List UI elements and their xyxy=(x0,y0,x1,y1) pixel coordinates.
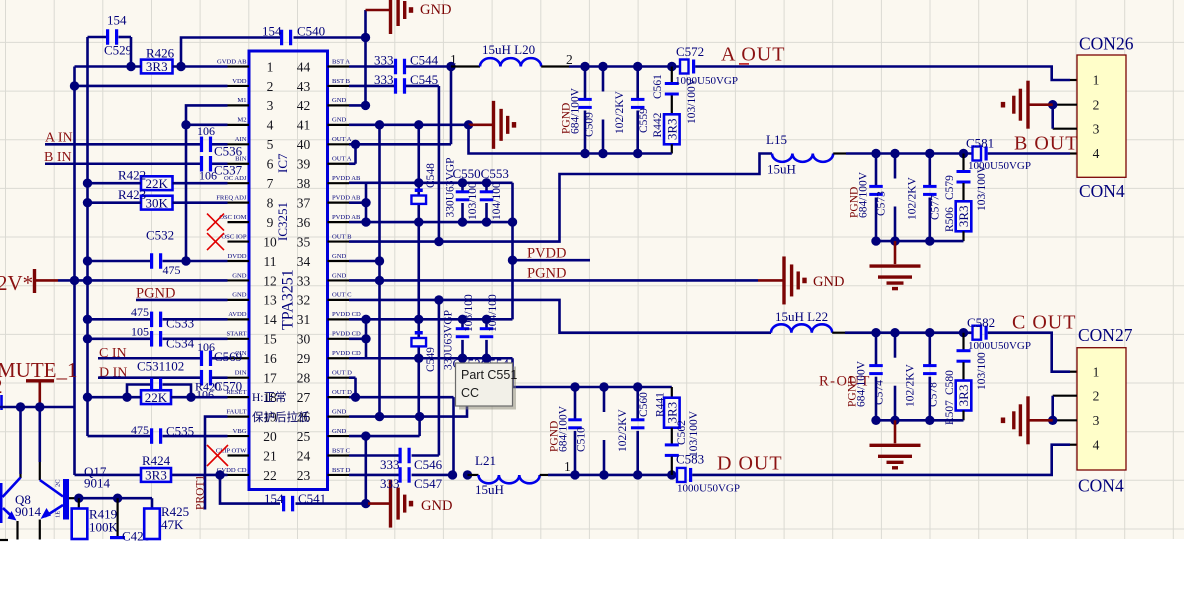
svg-text:20: 20 xyxy=(263,429,277,444)
junction Ab1 xyxy=(580,149,589,158)
svg-text:PVDD CD: PVDD CD xyxy=(332,331,361,338)
svg-text:24: 24 xyxy=(297,448,311,463)
IC7 pin 42 (GND) stub+number+name xyxy=(297,97,349,113)
svg-text:M1: M1 xyxy=(237,97,246,104)
IC7 pin 18 (RESET) stub+number+name xyxy=(226,389,277,405)
svg-text:103/100: 103/100 xyxy=(463,294,475,332)
svg-text:GND: GND xyxy=(420,2,451,18)
svg-text:104/100: 104/100 xyxy=(487,294,499,332)
svg-text:10: 10 xyxy=(263,234,277,249)
junction C1 xyxy=(871,328,880,337)
svg-text:C572: C572 xyxy=(676,44,704,59)
wire pin41 GND row xyxy=(349,124,469,127)
svg-text:14: 14 xyxy=(263,312,277,327)
junction 36c xyxy=(458,217,467,226)
svg-text:40: 40 xyxy=(297,137,311,152)
svg-text:R506: R506 xyxy=(944,207,956,232)
svg-text:PGND: PGND xyxy=(527,266,566,282)
IC7 pin 8 (FREQ ADJ) stub+number+name xyxy=(216,194,273,210)
svg-text:42: 42 xyxy=(297,98,311,113)
junction D1 xyxy=(570,470,579,479)
wire pin36 PVDD AB rail xyxy=(349,221,513,224)
junction Cb1 xyxy=(871,416,880,425)
wire pin31 PVDD CD rail xyxy=(349,318,513,321)
wire OUT A net xyxy=(349,67,451,164)
capacitor C580 + resistor R507 3R3 chain xyxy=(956,333,972,421)
svg-text:1000U50VGP: 1000U50VGP xyxy=(675,75,738,87)
junction R422/bus xyxy=(83,179,92,188)
svg-text:2: 2 xyxy=(1093,97,1100,112)
svg-text:4: 4 xyxy=(267,118,274,133)
junction Ab3 xyxy=(633,149,642,158)
svg-text:OUT D: OUT D xyxy=(332,389,352,396)
wire A OUT to CON26 pin1 xyxy=(695,67,1070,81)
capacitor C569 106 xyxy=(197,340,242,366)
power ground symbol A-filter xyxy=(469,101,517,149)
wire pin26 GND row xyxy=(349,406,467,417)
junction D-L21 b xyxy=(463,470,472,479)
svg-text:12: 12 xyxy=(263,273,277,288)
capacitor hidden branch A xyxy=(602,67,605,154)
junction C531 right xyxy=(186,392,195,401)
IC7 pin 9 (OSC IOM) stub+number+name xyxy=(219,214,273,230)
svg-text:9: 9 xyxy=(267,215,274,230)
wire pin42 GND xyxy=(349,104,366,107)
wire GND bus x379.5 xyxy=(378,125,381,417)
svg-text:R424: R424 xyxy=(142,453,171,468)
svg-text:103/100: 103/100 xyxy=(976,352,988,390)
junction R426 left xyxy=(126,62,135,71)
IC7 pin 5 (AIN) stub+number+name xyxy=(228,136,274,152)
edge tick bottom left xyxy=(0,539,8,541)
svg-text:1: 1 xyxy=(564,459,571,474)
connector CON27 body xyxy=(1077,325,1133,495)
junction Cb2 xyxy=(890,416,899,425)
capacitor C583 1000U50VGP xyxy=(676,452,740,495)
svg-text:GND: GND xyxy=(332,428,347,435)
wire pin12 row from +12V xyxy=(58,279,228,282)
capacitor C547 333 BST D xyxy=(349,467,453,491)
wire A IN row xyxy=(45,143,228,146)
svg-text:28: 28 xyxy=(297,371,311,386)
capacitor C572 1000U50VGP xyxy=(675,44,738,87)
svg-text:3: 3 xyxy=(1093,121,1100,136)
svg-text:C532: C532 xyxy=(146,228,174,243)
IC7 pin 12 (GND) stub+number+name xyxy=(228,272,277,288)
svg-text:C546: C546 xyxy=(414,457,443,472)
junction 12V/bus87 xyxy=(83,276,92,285)
resistor R424 3R3 xyxy=(141,453,171,483)
wire B IN row xyxy=(45,162,228,165)
junction 41a xyxy=(375,120,384,129)
resistor R422 22K xyxy=(118,168,173,191)
svg-text:C OUT: C OUT xyxy=(1012,312,1076,334)
junction Bb1 xyxy=(871,236,880,245)
capacitor C570 106 xyxy=(195,370,242,402)
svg-text:C509: C509 xyxy=(584,112,596,137)
capacitor C510 684/100V xyxy=(568,387,582,475)
svg-text:C545: C545 xyxy=(410,72,438,87)
svg-text:R423: R423 xyxy=(118,187,146,202)
svg-text:15uH L20: 15uH L20 xyxy=(482,42,535,57)
junction 33 xyxy=(375,276,384,285)
earth ground C filter xyxy=(894,420,897,443)
wire PVDD AB tie xyxy=(349,183,513,222)
power ground symbol big right xyxy=(758,256,807,304)
svg-text:15uH: 15uH xyxy=(767,162,796,177)
junction Bb2 xyxy=(890,236,899,245)
junction C3 xyxy=(925,328,934,337)
capacitor C578 102/2KV xyxy=(923,333,937,421)
junction pin42 gnd bus xyxy=(361,101,370,110)
wire C rail xyxy=(876,331,973,334)
capacitor hidden branch C xyxy=(894,333,897,421)
svg-text:22K: 22K xyxy=(145,390,168,405)
svg-text:GND: GND xyxy=(232,292,247,299)
svg-text:R422: R422 xyxy=(118,168,146,183)
svg-text:C574: C574 xyxy=(874,380,886,405)
capacitor C577 102/2KV xyxy=(923,154,937,242)
svg-text:PVDD AB: PVDD AB xyxy=(332,214,361,221)
junction A3 xyxy=(633,62,642,71)
capacitor C535 475 xyxy=(131,423,194,444)
junction C532 left xyxy=(83,256,92,265)
svg-text:15uH L22: 15uH L22 xyxy=(775,309,828,324)
junction 31c xyxy=(458,315,467,324)
wire rail D2 corner xyxy=(511,358,514,387)
junction D3 xyxy=(633,470,642,479)
capacitor C533 475 xyxy=(131,305,194,331)
svg-text:32: 32 xyxy=(297,293,311,308)
capacitor C548 330U63VGP xyxy=(411,163,437,204)
svg-text:PROT1: PROT1 xyxy=(195,475,207,510)
transistor Q8 9014 xyxy=(0,407,42,540)
svg-text:BST C: BST C xyxy=(332,447,351,454)
junction 26a xyxy=(375,412,384,421)
svg-text:3R3: 3R3 xyxy=(146,59,168,74)
junction MUTE/Q17 xyxy=(35,402,44,411)
svg-text:OUT B: OUT B xyxy=(332,233,352,240)
power ground symbol CON26 xyxy=(1001,81,1053,129)
wire pin25 GND row xyxy=(349,417,420,436)
IC7 pin 44 (BST A) stub+number+name xyxy=(297,58,351,74)
junction C533/bus xyxy=(83,315,92,324)
svg-text:OUT D: OUT D xyxy=(332,370,352,377)
capacitor C549 330U63VGP lower xyxy=(411,331,437,372)
IC7 pin 3 (M1) stub+number+name xyxy=(228,97,274,113)
IC7 pin 26 (GND) stub+number+name xyxy=(297,408,349,424)
svg-text:BST D: BST D xyxy=(332,467,351,474)
junction Dt3 xyxy=(633,382,642,391)
svg-text:C570: C570 xyxy=(214,379,242,394)
svg-text:GVDD AB: GVDD AB xyxy=(217,58,247,65)
svg-text:CON26: CON26 xyxy=(1079,34,1134,54)
svg-text:31: 31 xyxy=(297,312,311,327)
wire B OUT to CON26 pin4 xyxy=(988,152,1077,155)
IC7 pin 25 (GND) stub+number+name xyxy=(297,428,349,444)
capacitor C541 154 xyxy=(264,491,326,511)
svg-text:25: 25 xyxy=(297,429,311,444)
svg-text:R442: R442 xyxy=(652,112,664,137)
svg-text:106: 106 xyxy=(197,340,215,354)
capacitor C545 333 BST B xyxy=(349,72,439,94)
capacitor C573 684/100V xyxy=(869,154,883,242)
inductor L21 15uH xyxy=(468,453,576,497)
svg-text:2: 2 xyxy=(0,374,3,398)
wire A bottom rail xyxy=(469,125,672,154)
resistor R441 3R3 + capacitor C562 chain xyxy=(664,387,680,475)
svg-text:GND: GND xyxy=(332,253,347,260)
wire PVDD stub xyxy=(513,259,591,262)
wire GVDD CD to C541 xyxy=(220,475,280,504)
IC7 pin 23 (BST D) stub+number+name xyxy=(297,467,351,483)
IC7 pin 35 (OUT B) stub+number+name xyxy=(297,233,352,249)
svg-text:C548: C548 xyxy=(425,163,437,188)
op-amp U1 IC7 TPA3251 body xyxy=(249,51,328,490)
svg-text:333: 333 xyxy=(380,457,400,472)
junction Dt2 xyxy=(599,382,608,391)
svg-text:C573: C573 xyxy=(876,191,888,216)
wire RESET row pin18 xyxy=(88,396,228,399)
IC7 pin 20 (VBG) stub+number+name xyxy=(228,428,278,444)
capacitor C560 102/2KV xyxy=(631,387,645,475)
IC7 pin 34 (GND) stub+number+name xyxy=(297,253,349,269)
junction 34 xyxy=(375,256,384,265)
svg-text:CON4: CON4 xyxy=(1078,476,1124,496)
svg-text:C533: C533 xyxy=(166,316,194,331)
svg-text:8: 8 xyxy=(267,195,274,210)
svg-text:44: 44 xyxy=(297,59,311,74)
svg-text:C562: C562 xyxy=(676,420,688,445)
svg-text:L21: L21 xyxy=(475,453,496,468)
IC7 pin 29 (PVDD CD) stub+number+name xyxy=(297,350,361,366)
svg-text:21: 21 xyxy=(263,448,277,463)
svg-text:35: 35 xyxy=(297,234,311,249)
svg-text:Part C551: Part C551 xyxy=(461,368,517,382)
svg-text:C559: C559 xyxy=(638,108,650,133)
svg-text:36: 36 xyxy=(297,215,311,230)
IC7 pin 4 (M2) stub+number+name xyxy=(228,117,274,133)
wire MUTE row xyxy=(0,406,75,409)
svg-text:OSC IOP: OSC IOP xyxy=(221,233,246,240)
earth ground B filter xyxy=(894,241,897,264)
junction Bb3 xyxy=(925,236,934,245)
IC7 pin 17 (DIN) stub+number+name xyxy=(228,370,278,386)
svg-text:2: 2 xyxy=(267,79,274,94)
svg-text:C561: C561 xyxy=(652,74,664,99)
junction 29c xyxy=(482,354,491,363)
resistor R423 30K xyxy=(118,187,173,210)
svg-text:6: 6 xyxy=(267,157,274,172)
wire C532 row pin11 DVDD xyxy=(88,260,228,263)
capacitor C509 684/100V xyxy=(578,67,592,154)
power port +12V xyxy=(0,269,58,295)
svg-text:C560: C560 xyxy=(638,392,650,417)
svg-text:333: 333 xyxy=(380,476,400,491)
inductor L22 15uH xyxy=(771,309,876,333)
IC7 pin 21 (CLIP OTW) stub+number+name xyxy=(216,447,277,463)
capacitor C531 bypass over 22K xyxy=(127,378,191,397)
svg-text:GND: GND xyxy=(332,408,347,415)
junction 29b xyxy=(458,354,467,363)
svg-text:106: 106 xyxy=(197,124,215,138)
svg-text:H:正常: H:正常 xyxy=(252,391,287,404)
junction PVDD AB 37 xyxy=(361,198,370,207)
IC7 pin 2 (VDD) stub+number+name xyxy=(228,78,274,94)
svg-text:R426: R426 xyxy=(146,46,175,61)
connector CON26 body xyxy=(1077,34,1134,202)
svg-text:C582: C582 xyxy=(967,315,995,330)
junction VDD/bus xyxy=(70,81,79,90)
wire C533 row pin14 AVDD xyxy=(88,318,228,321)
svg-text:30: 30 xyxy=(297,332,311,347)
capacitor hidden branch B xyxy=(894,154,897,242)
svg-text:1: 1 xyxy=(1093,73,1100,88)
junction C4 xyxy=(959,328,968,337)
svg-text:1E: 1E xyxy=(55,511,62,518)
IC7 pin 30 (PVDD CD) stub+number+name xyxy=(297,331,361,347)
IC7 pin 1 (GVDD AB) stub+number+name xyxy=(217,58,273,74)
wire R422 row xyxy=(88,182,228,185)
svg-text:DVDD: DVDD xyxy=(227,253,246,260)
junction B2 xyxy=(890,149,899,158)
wire R424 row pin22 GVDD CD xyxy=(75,474,228,477)
svg-text:29: 29 xyxy=(297,351,311,366)
svg-text:684/100V: 684/100V xyxy=(858,171,870,218)
no-connect X pin 21 CLIP OTW xyxy=(207,445,228,466)
wire PVDD CD tie xyxy=(349,319,513,358)
IC7 pin 16 (CIN) stub+number+name xyxy=(228,350,278,366)
svg-text:保护后拉低: 保护后拉低 xyxy=(252,410,310,424)
svg-text:M2: M2 xyxy=(237,117,246,124)
IC7 pin 33 (GND) stub+number+name xyxy=(297,272,349,288)
IC7 pin 15 (START) stub+number+name xyxy=(227,331,277,347)
junction OUT C / BST C xyxy=(434,295,443,304)
svg-text:C544: C544 xyxy=(410,53,439,68)
junction C2 xyxy=(890,328,899,337)
junction base/R419 xyxy=(74,494,83,503)
IC7 pin 39 (OUT A) stub+number+name xyxy=(297,156,352,172)
svg-text:154: 154 xyxy=(262,24,282,39)
svg-text:VDD: VDD xyxy=(232,78,247,85)
artifact red dash A OUT xyxy=(739,63,749,65)
IC7 pin 40 (OUT A) stub+number+name xyxy=(297,136,352,152)
svg-text:PVDD: PVDD xyxy=(527,246,566,262)
svg-text:GND: GND xyxy=(332,272,347,279)
CON26 pin3 stub xyxy=(1053,128,1077,130)
svg-text:1: 1 xyxy=(267,59,274,74)
wire VBG row pin20 xyxy=(88,435,228,438)
IC7 pin 10 (OSC IOP) stub+number+name xyxy=(221,233,277,249)
svg-text:IC7: IC7 xyxy=(275,153,290,173)
IC7 pin 6 (BIN) stub+number+name xyxy=(228,156,274,172)
junction 29a xyxy=(414,354,423,363)
wire OUT D net xyxy=(349,378,454,475)
junction OUT D xyxy=(351,392,360,401)
svg-text:22: 22 xyxy=(263,468,277,483)
wire C OUT to CON27 pin1 xyxy=(988,333,1070,372)
IC7 pin 36 (PVDD AB) stub+number+name xyxy=(297,214,361,230)
junction B1 xyxy=(871,149,880,158)
capacitor C546 333 BST C xyxy=(349,448,443,472)
wire GND vertical x365.5 xyxy=(364,10,367,105)
IC7 pin 32 (OUT C) stub+number+name xyxy=(297,292,352,308)
svg-text:38: 38 xyxy=(297,176,311,191)
svg-text:C581: C581 xyxy=(966,136,994,151)
svg-text:1000U50VGP: 1000U50VGP xyxy=(677,483,740,495)
svg-text:PVDD CD: PVDD CD xyxy=(332,311,361,318)
junction Dt1 xyxy=(570,382,579,391)
wire C534 row pin15 START xyxy=(88,337,228,340)
svg-text:3R3: 3R3 xyxy=(665,118,680,140)
junction C541 gnd xyxy=(361,499,370,508)
wire C529 right to R426 node xyxy=(130,37,133,67)
wire OUT B to L15 xyxy=(349,154,772,242)
capacitor C544 333 BST A xyxy=(349,53,451,75)
svg-text:C550C553: C550C553 xyxy=(453,166,509,181)
resistor R426 3R3 xyxy=(141,46,175,75)
svg-text:102/2KV: 102/2KV xyxy=(614,91,626,135)
svg-text:22K: 22K xyxy=(146,176,169,191)
svg-text:102/2KV: 102/2KV xyxy=(617,409,629,453)
junction 31d xyxy=(482,315,491,324)
wire D OUT to CON27 pin4 xyxy=(692,445,1070,475)
svg-text:1000U50VGP: 1000U50VGP xyxy=(968,160,1031,172)
svg-text:C583: C583 xyxy=(676,452,704,467)
svg-text:16: 16 xyxy=(263,351,277,366)
svg-text:C580: C580 xyxy=(944,370,956,395)
svg-text:7: 7 xyxy=(267,176,274,191)
capacitor C581 1000U50VGP xyxy=(966,136,1031,173)
svg-text:3: 3 xyxy=(267,98,274,113)
junction 41c xyxy=(464,120,473,129)
junction 41b xyxy=(414,120,423,129)
IC7 pin 22 (GVDD CD) stub+number+name xyxy=(217,467,277,483)
svg-text:330U63VGP: 330U63VGP xyxy=(445,157,457,217)
wire pin4 M2 row xyxy=(186,124,228,127)
junction railA 486 xyxy=(482,178,491,187)
svg-text:33: 33 xyxy=(297,273,311,288)
capacitor C529 xyxy=(88,13,133,58)
svg-text:17: 17 xyxy=(263,371,277,386)
svg-text:TPA3251: TPA3251 xyxy=(280,269,297,330)
IC7 pin 11 (DVDD) stub+number+name xyxy=(227,253,276,269)
IC7 pin 38 (PVDD AB) stub+number+name xyxy=(297,175,361,191)
wire BST B to OUT B xyxy=(438,86,441,242)
wire BST C to OUT C vertical xyxy=(438,300,441,456)
capacitor C554 104/100 lower xyxy=(480,319,494,358)
svg-text:D OUT: D OUT xyxy=(717,453,783,475)
svg-text:A OUT: A OUT xyxy=(721,44,785,66)
svg-text:37: 37 xyxy=(297,195,311,210)
svg-text:475: 475 xyxy=(131,305,149,319)
junction R426 right xyxy=(176,62,185,71)
junction Ab2 xyxy=(598,149,607,158)
IC7 pin 7 (OC ADJ) stub+number+name xyxy=(224,175,274,191)
junction C534/bus xyxy=(83,334,92,343)
svg-text:GND: GND xyxy=(232,272,247,279)
wire C529 left bus down x87.5 xyxy=(86,37,89,436)
junction 36d xyxy=(482,217,491,226)
svg-text:OUT A: OUT A xyxy=(332,156,352,163)
wire C bottom rail xyxy=(876,419,964,422)
svg-text:C578: C578 xyxy=(928,382,940,407)
svg-text:1000U50VGP: 1000U50VGP xyxy=(968,340,1031,352)
inductor L20 15uH xyxy=(451,42,569,67)
tooltip Part C551 xyxy=(456,363,518,410)
wire C540 to GND vertical xyxy=(294,36,366,39)
IC7 pin 14 (AVDD) stub+number+name xyxy=(228,311,278,327)
